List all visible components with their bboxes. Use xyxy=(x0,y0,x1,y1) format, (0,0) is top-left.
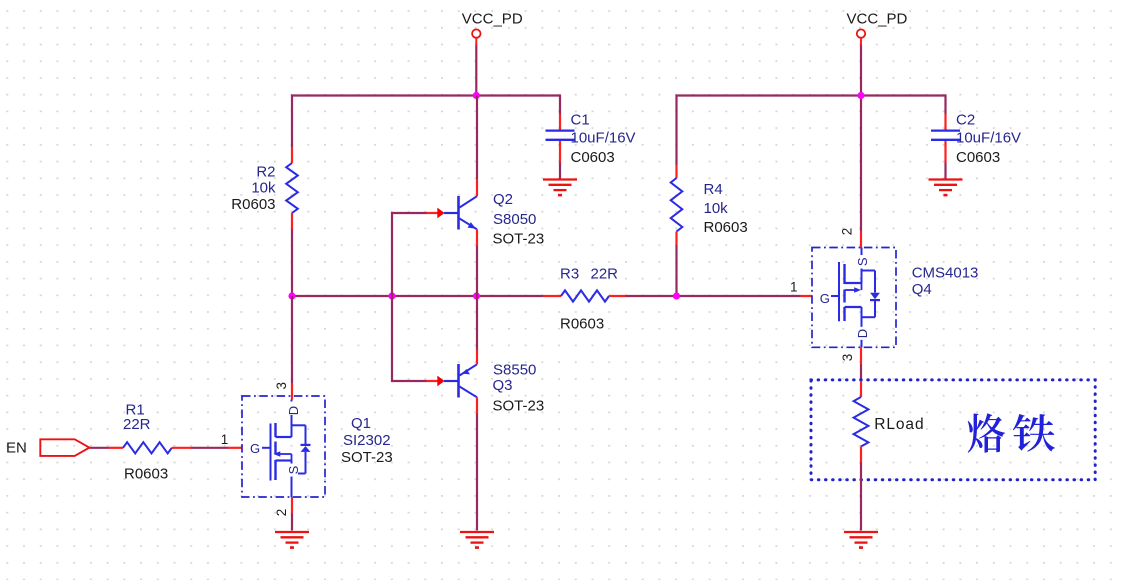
junction top-left xyxy=(473,92,480,99)
svg-text:G: G xyxy=(250,441,260,456)
resistor R1 xyxy=(109,442,192,453)
capacitor C1 xyxy=(546,114,575,163)
capacitor C2 xyxy=(931,114,960,163)
wire R3 to Q4 gate xyxy=(626,295,801,297)
svg-text:VCC_PD: VCC_PD xyxy=(462,11,523,28)
wire C2 to ground xyxy=(944,163,946,179)
svg-text:S8550: S8550 xyxy=(493,362,536,379)
junction at push-pull output xyxy=(473,292,480,299)
svg-text:R0603: R0603 xyxy=(231,196,275,213)
svg-text:10k: 10k xyxy=(251,180,276,197)
pin name G (Q4) xyxy=(819,293,832,305)
svg-text:SI2302: SI2302 xyxy=(343,432,391,449)
svg-text:10uF/16V: 10uF/16V xyxy=(571,130,636,147)
svg-text:R2: R2 xyxy=(256,164,275,181)
pin name S (Q4) xyxy=(856,255,868,269)
wire Q1 source to ground xyxy=(291,514,293,531)
wire C1 to ground xyxy=(559,163,561,179)
load text LaoTie xyxy=(968,413,1005,453)
svg-text:EN: EN xyxy=(6,440,27,457)
wire EN to R1 xyxy=(89,447,108,449)
svg-text:G: G xyxy=(820,291,830,306)
component box Q1 xyxy=(242,396,325,497)
svg-text:Q1: Q1 xyxy=(351,415,371,432)
svg-text:C0603: C0603 xyxy=(956,149,1000,166)
svg-text:1: 1 xyxy=(221,432,229,447)
wire Q3 emitter to bus xyxy=(476,296,478,350)
wire Q4 drain to load xyxy=(860,363,862,381)
wire R1 to Q1 gate xyxy=(191,447,228,449)
svg-text:S8050: S8050 xyxy=(493,211,536,228)
svg-text:R0603: R0603 xyxy=(124,466,168,483)
resistor R3 xyxy=(543,290,626,301)
junction top-right xyxy=(857,92,864,99)
svg-text:SOT-23: SOT-23 xyxy=(493,398,545,415)
pin name S (Q1) xyxy=(286,464,298,477)
svg-text:22R: 22R xyxy=(591,266,619,283)
wire main bus (node to R3) xyxy=(292,295,543,297)
svg-text:R0603: R0603 xyxy=(560,316,604,333)
svg-text:1: 1 xyxy=(790,280,798,295)
svg-text:CMS4013: CMS4013 xyxy=(912,265,979,282)
svg-text:VCC_PD: VCC_PD xyxy=(847,11,908,28)
svg-text:R0603: R0603 xyxy=(704,219,748,236)
svg-text:10k: 10k xyxy=(704,200,729,217)
svg-text:C1: C1 xyxy=(571,112,590,129)
svg-text:D: D xyxy=(286,406,301,415)
wire base drive upper xyxy=(392,213,427,296)
wire bus to Q1 drain xyxy=(291,296,293,383)
svg-text:C2: C2 xyxy=(956,112,975,129)
wire VCC_PD left vertical xyxy=(475,46,477,96)
svg-text:R4: R4 xyxy=(704,181,723,198)
transistor Q4 pin stubs xyxy=(801,231,862,363)
ground under C2 xyxy=(929,180,963,196)
wire top bus left (R2 to C1) xyxy=(292,96,560,148)
svg-text:Q3: Q3 xyxy=(493,377,513,394)
svg-text:2: 2 xyxy=(840,228,855,236)
power symbol VCC_PD (left) xyxy=(472,29,480,45)
wire R4 bottom to bus xyxy=(675,245,677,296)
svg-text:2: 2 xyxy=(274,509,289,517)
pin name D (Q4) xyxy=(856,327,868,340)
ground under RLoad xyxy=(844,532,878,548)
svg-text:Q4: Q4 xyxy=(912,281,932,298)
junction at R4 bottom xyxy=(673,292,680,299)
resistor R2 xyxy=(286,147,298,229)
svg-text:10uF/16V: 10uF/16V xyxy=(956,130,1021,147)
svg-text:3: 3 xyxy=(274,382,289,390)
svg-text:C0603: C0603 xyxy=(571,149,615,166)
component box Q4 xyxy=(812,248,896,348)
svg-text:3: 3 xyxy=(840,354,855,362)
wire base drive lower xyxy=(392,296,427,381)
svg-text:SOT-23: SOT-23 xyxy=(493,231,545,248)
svg-text:SOT-23: SOT-23 xyxy=(341,449,393,466)
svg-text:S: S xyxy=(286,465,301,474)
transistor Q1 pin stubs xyxy=(228,383,292,514)
wire Q2 collector up xyxy=(476,96,478,180)
svg-text:D: D xyxy=(855,329,870,338)
load outline box xyxy=(811,380,1095,480)
transistor Q1 symbol xyxy=(262,400,311,498)
pin name G (Q1) xyxy=(249,443,262,455)
ground under C1 xyxy=(543,180,577,196)
junction at R2/Q1 column xyxy=(288,292,295,299)
power symbol VCC_PD (right) xyxy=(857,29,865,45)
wire top bus right (R4 to C2) xyxy=(677,96,946,166)
transistor Q3 xyxy=(427,350,478,414)
wire Q3 collector to ground xyxy=(476,414,478,531)
ground under Q1 xyxy=(275,532,309,548)
wire R2 bottom to bus xyxy=(291,229,293,296)
transistor Q4 symbol xyxy=(831,248,881,348)
svg-text:R3: R3 xyxy=(560,266,579,283)
svg-text:Q2: Q2 xyxy=(493,191,513,208)
svg-text:RLoad: RLoad xyxy=(874,416,924,433)
junction at base-drive column xyxy=(388,292,395,299)
transistor Q2 xyxy=(427,179,478,246)
wire Q2 emitter to bus xyxy=(476,246,478,296)
wire RLoad to ground xyxy=(860,463,862,531)
wire VCC_PD right vertical xyxy=(860,46,862,232)
port EN xyxy=(40,439,89,456)
svg-text:22R: 22R xyxy=(123,416,151,433)
resistor RLoad xyxy=(854,381,869,463)
resistor R4 xyxy=(671,165,683,245)
ground under Q3 xyxy=(460,532,494,548)
pin name D (Q1) xyxy=(286,402,298,416)
svg-text:S: S xyxy=(855,257,870,266)
